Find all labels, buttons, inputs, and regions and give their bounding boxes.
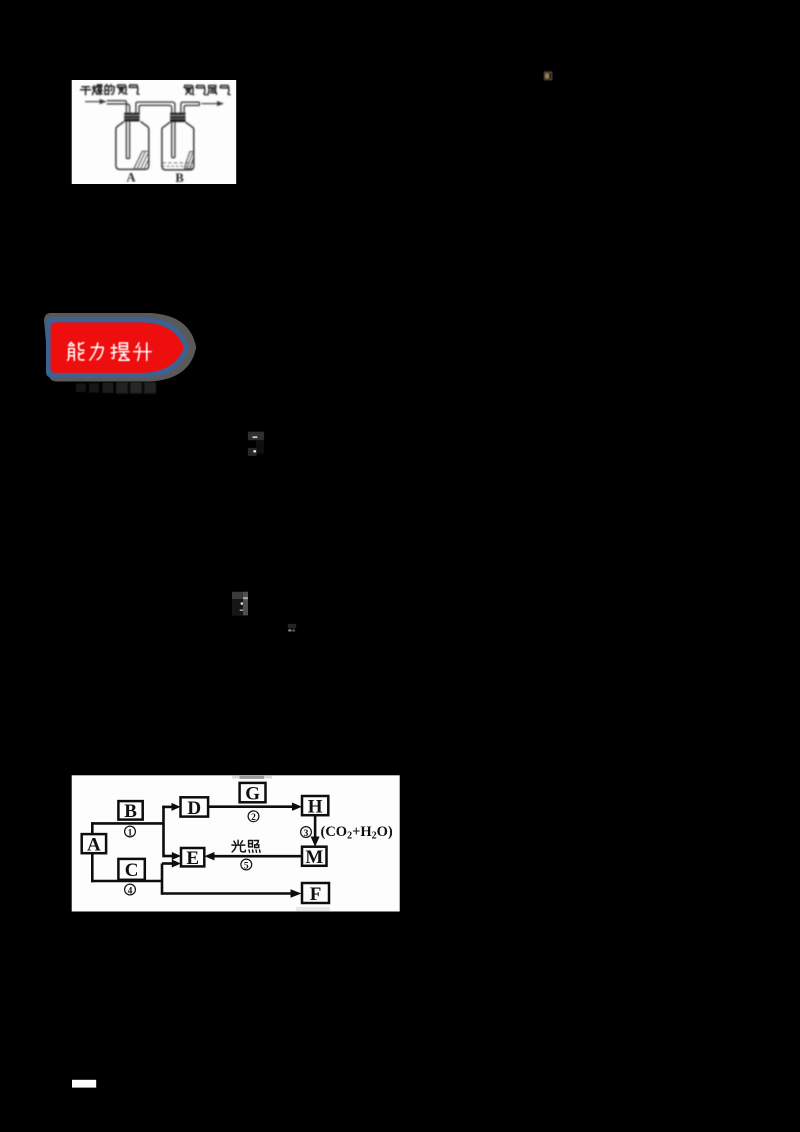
tiny image placeholder icon (544, 71, 553, 80)
circled 4 (125, 884, 136, 896)
box H (302, 796, 328, 818)
box F (302, 883, 329, 905)
wire C-line (91, 880, 162, 883)
尾 (208, 86, 217, 96)
arrow into E lower (162, 862, 173, 865)
circled 3 (301, 827, 312, 839)
hatched wedge in bottle A (134, 151, 148, 169)
svg-text:(CO2+H2O): (CO2+H2O) (321, 824, 393, 842)
svg-text:C: C (125, 860, 139, 881)
力 (90, 343, 103, 360)
svg-text:B: B (124, 801, 137, 822)
banner shadow (44, 313, 196, 382)
wire A down (91, 853, 94, 882)
page number mark (72, 1080, 96, 1088)
bottle A body (116, 122, 149, 170)
svg-text:3: 3 (304, 829, 309, 839)
hatched wedge in bottle B (184, 152, 193, 169)
光 (232, 840, 246, 852)
box A (82, 834, 106, 855)
glass tube outlet from bottle B (181, 102, 200, 113)
照 (249, 841, 260, 853)
wire upper branch vertical (162, 806, 165, 858)
svg-text:M: M (305, 847, 323, 868)
气 (220, 85, 230, 94)
气 (196, 85, 206, 94)
svg-text:5: 5 (244, 861, 249, 871)
outlet arrow (202, 101, 225, 106)
gray tab above panel (232, 776, 240, 779)
label 光照 (232, 840, 260, 852)
arrow to F (162, 892, 292, 895)
apparatus figure panel (72, 80, 237, 184)
box B (118, 801, 142, 822)
label 干燥的氯气 (dry chlorine in) (81, 85, 139, 95)
label 氯气尾气 (chlorine tail gas out) (184, 85, 230, 95)
reaction-condition mark 1 (MnO2 over delta remnants) (248, 432, 264, 456)
box M (302, 847, 327, 869)
的 (105, 85, 114, 95)
wire lower branch vertical (161, 864, 164, 895)
circled 1 (125, 826, 136, 838)
inlet arrow (85, 99, 107, 104)
wire A up (91, 822, 94, 834)
arrow H down to M (314, 815, 317, 837)
氯 (117, 85, 127, 94)
banner blue outline (46, 317, 189, 377)
liquid level dashes in bottle B (162, 163, 193, 166)
svg-text:G: G (245, 784, 260, 805)
circled 5 (241, 859, 252, 871)
svg-text:D: D (187, 798, 201, 819)
glass tube inlet into bottle A (107, 101, 130, 159)
svg-text:1: 1 (128, 828, 133, 838)
faint heading text under banner (76, 382, 156, 394)
bottle B body (162, 122, 194, 170)
arrow M to E (214, 855, 303, 858)
arrow into E upper (164, 855, 173, 858)
svg-text:4: 4 (128, 886, 133, 896)
燥 (93, 85, 103, 95)
flowchart panel (72, 775, 400, 911)
svg-text:A: A (126, 171, 135, 185)
氯 (184, 85, 194, 94)
banner text 能力提升 (68, 342, 152, 360)
svg-text:A: A (87, 835, 101, 856)
box D (181, 797, 209, 819)
box C (118, 859, 144, 881)
升 (134, 343, 152, 361)
glass tube bottle A to bottle B (136, 102, 175, 158)
circled 2 (248, 811, 259, 823)
box E (181, 848, 204, 869)
气 (129, 85, 139, 94)
reaction-condition mark 2 (232, 592, 248, 616)
提 (111, 343, 129, 360)
faint glyph mark (288, 624, 296, 632)
gray tab below panel (296, 907, 330, 911)
svg-text:F: F (310, 884, 322, 905)
干 (81, 87, 91, 95)
arrow D to H (208, 805, 293, 808)
svg-text:B: B (175, 171, 183, 185)
能 (68, 342, 84, 360)
stopper of bottle B (170, 113, 185, 122)
svg-text:H: H (308, 797, 323, 818)
arrow into D (162, 806, 172, 809)
svg-text:2: 2 (251, 813, 256, 823)
stopper of bottle A (124, 113, 139, 122)
box G (240, 783, 266, 805)
wire B-line (92, 822, 163, 825)
svg-text:E: E (186, 848, 199, 869)
banner red body (51, 322, 184, 373)
